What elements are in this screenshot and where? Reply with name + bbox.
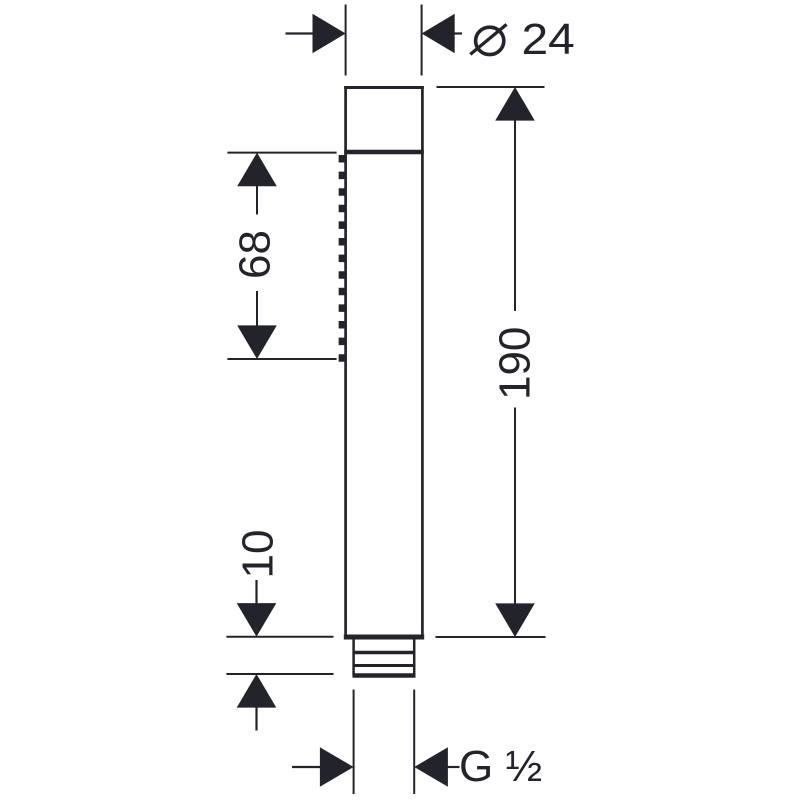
dim 10 top tick [226, 636, 333, 638]
connector thread line 2 [353, 664, 416, 667]
connector thread line 1 [353, 651, 416, 655]
dim 68 bottom arrow [237, 325, 277, 359]
connector right edge [413, 638, 416, 676]
dim 10 upper arrow [237, 603, 277, 637]
dim D24 label diameter symbol circle [476, 27, 504, 54]
dim D24 left arrow [313, 14, 346, 54]
dim D24 label diameter symbol slash [470, 24, 506, 54]
shower body left edge [344, 86, 347, 639]
dim G1/2 right arrow [414, 747, 448, 787]
svg-text:10: 10 [234, 530, 283, 579]
dim 190 line lower [514, 408, 516, 604]
dim 190 bottom arrow [495, 603, 535, 637]
dim 190 top arrow [495, 87, 535, 121]
dim 190 line upper [514, 120, 516, 311]
dim G1/2 left tail [292, 766, 321, 768]
dim 10 lower arrow [237, 674, 277, 708]
dim 68 top arrow [237, 153, 277, 187]
dim 190 top tick [437, 86, 545, 88]
dim 68 bottom tick [227, 358, 336, 360]
joint line between cap and spray section [344, 150, 424, 155]
dim 68 top tick [227, 152, 336, 154]
dim D24 extension line left [345, 5, 347, 76]
dim 10 upper tail [255, 580, 257, 605]
connector left edge [352, 638, 355, 676]
dim G1/2 right tail [447, 766, 460, 768]
dim 68 line lower [256, 291, 258, 326]
dim D24 left tail [286, 32, 314, 34]
svg-text:G ½: G ½ [459, 742, 542, 791]
svg-text:68: 68 [231, 230, 280, 279]
dim D24 right tail [454, 32, 462, 34]
spray nozzle dashes on left face [339, 155, 346, 362]
dim 190 bottom tick [436, 636, 546, 638]
dim D24 right arrow [422, 14, 455, 54]
svg-text:190: 190 [491, 327, 540, 400]
dim G1/2 extension line right [413, 690, 415, 795]
dim G1/2 extension line left [353, 690, 355, 795]
shower body bottom edge [344, 635, 424, 640]
connector bottom edge [353, 673, 416, 678]
shower body right edge [421, 86, 424, 639]
dim G1/2 left arrow [320, 747, 354, 787]
svg-text:24: 24 [522, 15, 575, 64]
dim D24 extension line right [421, 5, 423, 76]
dim 68 line upper [256, 186, 258, 215]
shower body top edge [344, 86, 424, 89]
dim 10 bottom tick [226, 673, 333, 675]
dim 10 lower tail [255, 707, 257, 731]
